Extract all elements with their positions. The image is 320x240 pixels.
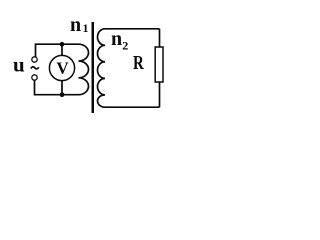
terminal top xyxy=(32,57,37,62)
junction top xyxy=(60,42,65,47)
wire voltmeter bottom stem xyxy=(61,81,63,95)
wire resistor bottom stem xyxy=(159,82,161,107)
junction bottom xyxy=(60,92,65,97)
wire left top: from top terminal up and right to primary xyxy=(36,44,79,57)
svg-text:V: V xyxy=(56,59,69,78)
transformer core xyxy=(92,22,95,113)
svg-text:n: n xyxy=(70,14,81,36)
resistor R body xyxy=(155,47,163,82)
svg-text:n: n xyxy=(111,28,122,50)
tilde AC symbol xyxy=(31,67,39,69)
primary winding n1 (3 arcs) xyxy=(79,44,89,94)
secondary winding n2 (5 arcs) with top and bottom wires xyxy=(97,29,159,107)
svg-text:2: 2 xyxy=(122,39,128,53)
wire voltmeter top stem xyxy=(61,44,63,55)
svg-text:1: 1 xyxy=(83,21,89,35)
wire left bottom: from bottom terminal down and right to primary xyxy=(35,80,79,94)
voltmeter U1 circle xyxy=(49,55,74,80)
svg-text:R: R xyxy=(133,53,144,74)
wire resistor top stem xyxy=(159,29,161,47)
terminal bottom xyxy=(32,75,37,80)
svg-text:u: u xyxy=(13,52,25,76)
